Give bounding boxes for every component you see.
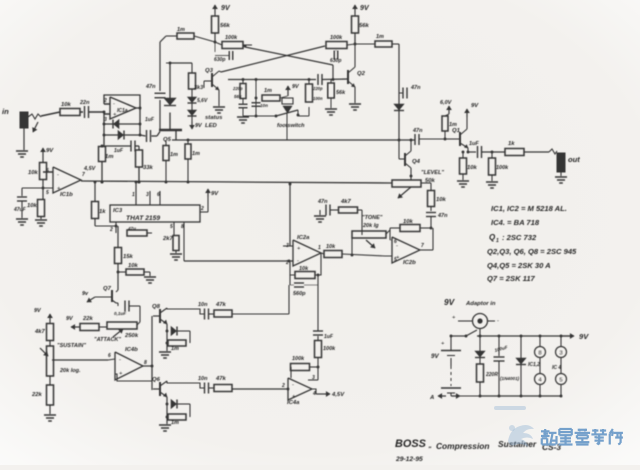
svg-text:9v: 9v [82,291,89,297]
svg-text:22k: 22k [82,316,94,322]
svg-text:9V: 9V [444,297,456,307]
svg-text:8: 8 [181,224,184,230]
svg-text:-: - [292,382,294,388]
svg-text:10n: 10n [198,376,208,382]
svg-text:"ATTACK": "ATTACK" [94,337,121,343]
svg-text:2k7: 2k7 [162,236,174,242]
svg-text:10k: 10k [436,197,447,203]
svg-text:22k: 22k [31,392,43,398]
svg-text:IC2b: IC2b [403,260,416,266]
svg-text:2: 2 [200,206,204,212]
svg-text:-: - [57,172,59,178]
svg-text:+: + [119,371,123,377]
svg-text:Adaptor in: Adaptor in [465,301,496,307]
svg-text:Q4,Q5 = 2SK 30 A: Q4,Q5 = 2SK 30 A [487,261,551,270]
svg-text:100n: 100n [313,96,323,101]
svg-text:5: 5 [46,190,49,196]
svg-text:56k: 56k [336,90,346,96]
svg-text:20k log.: 20k log. [59,368,81,374]
svg-text:0,1uF: 0,1uF [114,311,126,316]
svg-text:560p: 560p [293,291,306,297]
svg-text:10k: 10k [403,219,414,225]
svg-text:THAT 2159: THAT 2159 [126,215,160,222]
svg-text:Q2,Q3, Q6, Q8 = 2SC 945: Q2,Q3, Q6, Q8 = 2SC 945 [487,247,577,256]
svg-text:1m: 1m [171,346,179,352]
svg-text:2: 2 [281,383,285,389]
svg-text:5: 5 [170,224,173,230]
svg-text:10k: 10k [28,170,39,176]
svg-text:1: 1 [132,192,135,198]
svg-text:1uF: 1uF [145,117,155,123]
svg-text:6: 6 [46,168,49,174]
svg-text:9V: 9V [579,332,589,341]
svg-text:100k: 100k [225,35,238,41]
svg-text:2: 2 [109,227,113,233]
svg-text:10k: 10k [27,203,38,209]
svg-text:IC4. = BA 718: IC4. = BA 718 [491,218,540,227]
svg-text:10n: 10n [198,302,208,308]
svg-text:4k7: 4k7 [340,199,352,205]
svg-text:in: in [2,107,9,116]
svg-text:-: - [497,318,499,324]
svg-text:A: A [429,395,434,401]
svg-text:1m: 1m [376,34,384,40]
svg-text:220p: 220p [312,86,323,91]
svg-text:9V: 9V [471,103,479,109]
svg-text:Q4: Q4 [412,159,421,165]
svg-text:1k: 1k [99,209,106,215]
svg-text:9V: 9V [221,4,231,12]
svg-text:IC1, IC2 = M 5218 AL.: IC1, IC2 = M 5218 AL. [491,204,567,213]
svg-text:1: 1 [318,245,321,251]
svg-text:4,5V: 4,5V [331,392,345,398]
svg-text:+: + [297,246,301,252]
svg-text:IC1b: IC1b [60,192,73,198]
svg-text:+: + [452,315,456,321]
svg-text:-: - [113,101,115,107]
svg-text:-: - [119,357,121,363]
svg-text:33k: 33k [143,165,154,171]
svg-text:1m: 1m [170,152,178,158]
svg-text:6: 6 [157,192,160,198]
svg-text:47n: 47n [410,85,421,91]
svg-text:IC1a: IC1a [117,108,128,114]
svg-text:IC 4: IC 4 [552,365,561,371]
svg-text:3: 3 [146,192,149,198]
svg-text:100k: 100k [496,165,509,171]
svg-text:10k: 10k [128,263,139,269]
svg-text:9V: 9V [360,4,370,12]
svg-text:630p: 630p [214,57,225,63]
svg-text:BOSS: BOSS [395,438,427,450]
svg-text:20k lg: 20k lg [362,223,379,229]
svg-text:47n: 47n [437,213,448,219]
svg-text:Q3: Q3 [205,68,214,74]
svg-text:5,6V: 5,6V [197,98,208,104]
svg-text:8: 8 [144,360,147,366]
svg-text:9V: 9V [46,148,54,154]
svg-text:1m: 1m [171,420,179,426]
svg-text:29-12-95: 29-12-95 [395,456,423,463]
svg-text:Q8: Q8 [152,304,161,310]
svg-text:+: + [441,341,445,347]
svg-text:100k: 100k [323,346,336,352]
svg-text:6: 6 [108,353,111,359]
svg-text:1uF: 1uF [324,334,334,340]
svg-text:1m: 1m [264,88,272,94]
svg-text:IC2a: IC2a [297,235,310,241]
svg-text:4: 4 [312,391,316,397]
svg-text:47u: 47u [127,226,136,231]
svg-text:47uF: 47uF [13,207,27,213]
svg-text:10k: 10k [326,244,336,250]
svg-text:10k: 10k [467,165,478,171]
svg-text:out: out [568,155,580,164]
svg-text:220p: 220p [232,86,243,91]
svg-text:"TONE": "TONE" [362,215,383,221]
svg-text:Q7 = 2SK 117: Q7 = 2SK 117 [487,274,536,283]
svg-text:"SUSTAIN": "SUSTAIN" [57,343,86,349]
svg-text:1m: 1m [177,27,185,33]
svg-text:Compression: Compression [436,441,490,451]
svg-text:10k: 10k [299,266,309,272]
svg-text:IC1,2: IC1,2 [528,362,540,368]
svg-text:4,5V: 4,5V [83,166,97,172]
svg-text:47n: 47n [412,128,423,134]
svg-text:Q7: Q7 [103,286,112,292]
svg-text:: 2SC 732: : 2SC 732 [502,233,537,242]
svg-text:10n: 10n [260,103,268,108]
svg-text:47n: 47n [145,84,156,90]
svg-text:100k: 100k [292,356,305,362]
svg-text:5: 5 [394,257,397,263]
svg-text:IC4b: IC4b [125,347,138,353]
svg-text:1uF: 1uF [114,148,124,154]
svg-text:-: - [297,258,299,264]
svg-text:630p: 630p [330,58,341,64]
svg-text:7: 7 [421,243,424,249]
svg-text:1m: 1m [105,154,114,160]
svg-text:LED: LED [205,123,218,129]
svg-text:100k: 100k [330,35,343,41]
svg-text:10k: 10k [61,102,72,108]
svg-text:status: status [205,115,223,121]
svg-text:250k: 250k [124,333,139,339]
svg-text:9V: 9V [431,353,440,360]
svg-text:56k: 56k [220,23,231,29]
svg-text:56k: 56k [234,94,242,99]
svg-text:1m: 1m [192,151,200,157]
svg-text:1k: 1k [508,141,515,147]
svg-text:7: 7 [82,172,85,178]
svg-text:1: 1 [496,238,499,244]
svg-text:15k: 15k [123,254,134,260]
svg-text:9V: 9V [211,191,219,197]
svg-text:Q5: Q5 [163,137,172,143]
svg-text:(1N4001): (1N4001) [500,376,520,381]
svg-text:4k7: 4k7 [34,329,46,335]
svg-text:6: 6 [394,239,397,245]
svg-text:6,0V: 6,0V [440,100,453,106]
svg-text:47n: 47n [317,199,328,205]
svg-text:IC3: IC3 [113,208,123,214]
svg-text:Q6: Q6 [152,377,161,383]
svg-text:22n: 22n [79,100,90,106]
svg-text:56k: 56k [359,23,370,29]
svg-text:footswitch: footswitch [277,123,305,129]
svg-text:Q1: Q1 [452,128,460,134]
svg-text:Q: Q [489,233,496,242]
svg-text:IC4a: IC4a [287,400,300,406]
svg-text:3k3: 3k3 [194,85,203,91]
svg-text:220R: 220R [485,372,498,378]
svg-text:47k: 47k [215,302,227,308]
svg-text:47k: 47k [215,376,227,382]
svg-text:Q2: Q2 [357,71,366,77]
svg-text:"LEVEL": "LEVEL" [421,170,444,176]
